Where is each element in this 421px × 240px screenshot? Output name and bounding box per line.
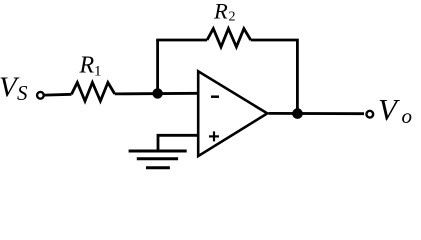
wire [158, 135, 198, 151]
label R2 [213, 0, 236, 25]
wire [251, 40, 298, 114]
terminal Vo [366, 111, 373, 118]
wire [156, 40, 159, 93]
plus [209, 131, 219, 141]
terminal Vs [37, 92, 44, 99]
svg-text:S: S [17, 81, 28, 105]
label V_o [378, 92, 412, 128]
node B [292, 108, 303, 119]
label V_S [0, 71, 28, 105]
wire [45, 93, 72, 97]
op-amp U1 [198, 71, 267, 156]
node A [152, 88, 162, 98]
svg-text:1: 1 [94, 64, 102, 80]
resistor R2 [207, 29, 251, 47]
svg-text:R: R [213, 0, 228, 24]
svg-text:V: V [378, 92, 400, 127]
resistor R1 [72, 83, 115, 102]
svg-text:R: R [79, 53, 95, 79]
wire [115, 92, 199, 95]
wire [269, 112, 365, 115]
ground [129, 151, 187, 168]
minus [211, 95, 219, 98]
wire [156, 39, 207, 42]
label R1 [79, 53, 102, 80]
svg-text:2: 2 [229, 10, 236, 25]
svg-text:o: o [402, 104, 413, 128]
